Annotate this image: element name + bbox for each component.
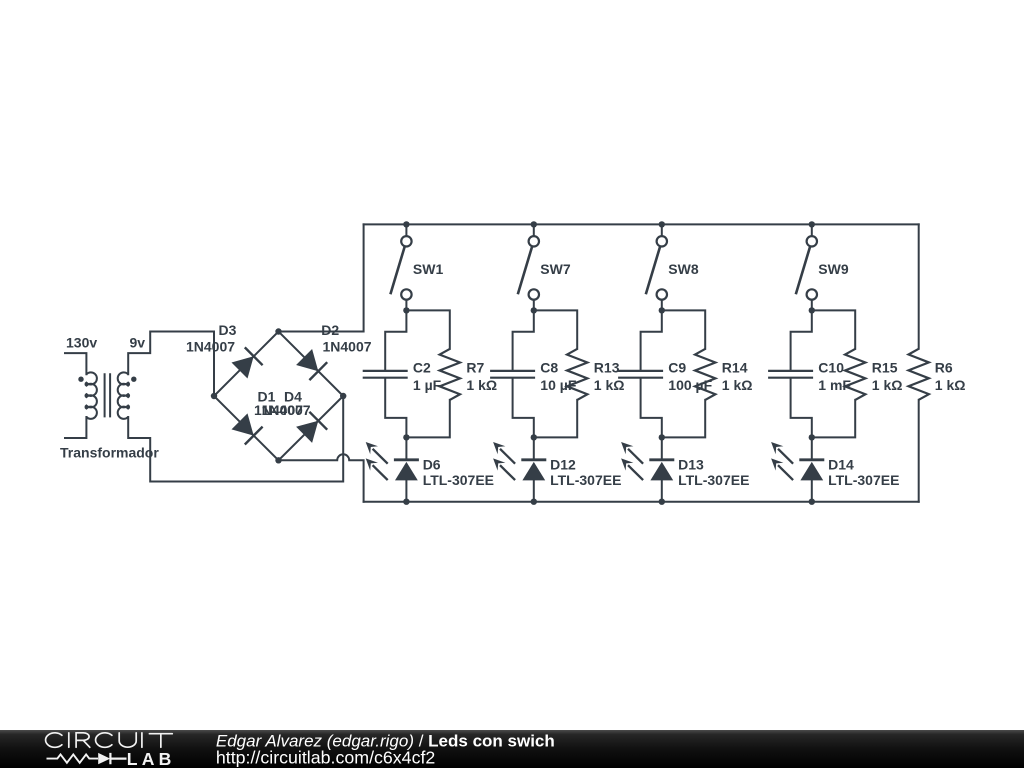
label R6 (935, 360, 953, 376)
capacitor C9 (618, 371, 663, 378)
label C9 (668, 360, 686, 376)
wire node to R7 top (406, 310, 449, 349)
label 130v (66, 334, 97, 350)
node top rail SW1 (403, 221, 409, 227)
wire top rail to SW7 (533, 224, 535, 236)
wire SW8 to node (661, 300, 663, 311)
wire right rail lower (918, 400, 920, 502)
svg-text:LTL-307EE: LTL-307EE (423, 472, 494, 488)
LED D12 (493, 442, 546, 480)
node bridge right node (340, 393, 346, 399)
svg-text:9v: 9v (130, 334, 146, 350)
label D14 (828, 456, 854, 472)
diode D1 (232, 413, 263, 444)
transformer T1 (78, 372, 136, 419)
wire node to C10 top (791, 310, 812, 370)
svg-text:R13: R13 (594, 360, 620, 376)
LED D13 (621, 442, 674, 480)
label C2 value (413, 377, 442, 393)
node bottom rail D6 (403, 499, 409, 505)
wire secondary bottom to bridge right node (128, 396, 343, 482)
switch SW1 (390, 236, 411, 300)
label D6 value LTL-307EE (423, 472, 494, 488)
wire bottom rail (364, 501, 919, 503)
node top rail SW8 (659, 221, 665, 227)
wire C8 bottom to node (513, 379, 534, 438)
wire SW7 to node (533, 300, 535, 311)
wire node to C9 top (641, 310, 662, 370)
svg-text:1N4007: 1N4007 (323, 339, 372, 355)
label D4 value 1N4007 (262, 402, 311, 418)
resistor R13 (567, 349, 587, 400)
node bridge top node (275, 328, 281, 334)
svg-text:1 kΩ: 1 kΩ (594, 377, 625, 393)
wire right rail upper (918, 224, 920, 348)
node bridge bottom node (275, 457, 281, 463)
svg-text:SW8: SW8 (668, 261, 699, 277)
label SW1 (413, 261, 444, 277)
node C2/R7 bottom (403, 434, 409, 440)
label C8 value (540, 377, 577, 393)
svg-text:130v: 130v (66, 334, 97, 350)
label R15 value 1 kOhm (872, 377, 903, 393)
label D13 (678, 456, 704, 472)
svg-text:C2: C2 (413, 360, 431, 376)
wire top rail to SW1 (405, 224, 407, 236)
label D3 (219, 322, 237, 338)
wire C9 bottom to node (641, 379, 662, 438)
wire top rail (364, 223, 919, 225)
label D13 value LTL-307EE (678, 472, 749, 488)
wire node to LED D14 (811, 437, 813, 459)
wire node to R14 top (662, 310, 705, 349)
resistor R7 (440, 349, 460, 400)
svg-text:SW9: SW9 (818, 261, 849, 277)
node SW7 output (531, 307, 537, 313)
svg-text:1 kΩ: 1 kΩ (466, 377, 497, 393)
resistor R15 (845, 349, 865, 400)
wire LED D12 to bottom rail (533, 480, 535, 501)
label R15 (872, 360, 898, 376)
footer title line (216, 731, 555, 750)
wire top rail to SW8 (661, 224, 663, 236)
label C2 (413, 360, 431, 376)
svg-text:SW7: SW7 (540, 261, 571, 277)
wire R13 bottom to node (534, 400, 577, 438)
wire R15 bottom to node (812, 400, 855, 438)
svg-text:LTL-307EE: LTL-307EE (678, 472, 749, 488)
svg-text:1 kΩ: 1 kΩ (935, 377, 966, 393)
LED D6 (366, 442, 419, 480)
wire R14 bottom to node (662, 400, 705, 438)
svg-text:LTL-307EE: LTL-307EE (828, 472, 899, 488)
svg-text:D2: D2 (321, 322, 339, 338)
resistor R14 (695, 349, 715, 400)
svg-text:D13: D13 (678, 456, 704, 472)
svg-text:LAB: LAB (127, 749, 176, 768)
diode D4 (296, 412, 327, 443)
wire bridge diamond (214, 332, 343, 461)
label D6 (423, 456, 441, 472)
footer bar (0, 730, 1024, 768)
switch SW9 (796, 236, 817, 300)
label SW7 (540, 261, 571, 277)
CircuitLab logo (46, 733, 173, 748)
node top rail SW9 (809, 221, 815, 227)
node C10/R15 bottom (809, 434, 815, 440)
node top rail SW7 (531, 221, 537, 227)
svg-text:LTL-307EE: LTL-307EE (550, 472, 621, 488)
node bottom rail D12 (531, 499, 537, 505)
label D1 (258, 389, 276, 405)
switch SW8 (646, 236, 667, 300)
label R13 value 1 kOhm (594, 377, 625, 393)
label R13 (594, 360, 620, 376)
label Transformador (60, 445, 159, 461)
label D14 value LTL-307EE (828, 472, 899, 488)
label C10 value (818, 377, 851, 393)
label 9v (130, 334, 146, 350)
node C8/R13 bottom (531, 434, 537, 440)
label D12 value LTL-307EE (550, 472, 621, 488)
node SW8 output (659, 307, 665, 313)
label SW8 (668, 261, 699, 277)
svg-text:SW1: SW1 (413, 261, 444, 277)
svg-text:R14: R14 (722, 360, 748, 376)
svg-text:D12: D12 (550, 456, 576, 472)
label C10 (818, 360, 844, 376)
svg-text:C10: C10 (818, 360, 844, 376)
label D2 (321, 322, 339, 338)
label C9 value (668, 377, 712, 393)
wire LED D14 to bottom rail (811, 480, 813, 501)
switch SW7 (518, 236, 539, 300)
resistor R6 (909, 349, 929, 400)
wire bridge bottom with hop to bottom corner (279, 454, 364, 501)
label D1 value 1N4007 (254, 402, 303, 418)
label D3 value 1N4007 (186, 339, 235, 355)
svg-text:http://circuitlab.com/c6x4cf2: http://circuitlab.com/c6x4cf2 (216, 748, 435, 768)
wire LED D13 to bottom rail (661, 480, 663, 501)
wire top rail to SW9 (811, 224, 813, 236)
node bottom rail D14 (809, 499, 815, 505)
svg-text:D14: D14 (828, 456, 854, 472)
svg-text:R15: R15 (872, 360, 898, 376)
label D4 (284, 389, 302, 405)
svg-text:R6: R6 (935, 360, 953, 376)
node C9/R14 bottom (659, 434, 665, 440)
node SW9 output (809, 307, 815, 313)
wire SW1 to node (405, 300, 407, 311)
capacitor C2 (363, 371, 408, 378)
wire R7 bottom to node (406, 400, 449, 438)
svg-text:R7: R7 (466, 360, 484, 376)
wire node to LED D6 (405, 437, 407, 459)
svg-text:C9: C9 (668, 360, 686, 376)
wire node to R15 top (812, 310, 855, 349)
diode D2 (296, 349, 327, 380)
svg-text:1 kΩ: 1 kΩ (722, 377, 753, 393)
logo LAB text (127, 749, 176, 768)
svg-text:1 kΩ: 1 kΩ (872, 377, 903, 393)
LED D14 (771, 442, 824, 480)
wire secondary top to bridge left node (128, 332, 214, 397)
wire LED D6 to bottom rail (405, 480, 407, 501)
label R14 value 1 kOhm (722, 377, 753, 393)
svg-text:C8: C8 (540, 360, 558, 376)
svg-text:D6: D6 (423, 456, 441, 472)
wire node to R13 top (534, 310, 577, 349)
wire node to LED D12 (533, 437, 535, 459)
wire node to C2 top (385, 310, 406, 370)
wire SW9 to node (811, 300, 813, 311)
footer url line (216, 748, 435, 768)
wire C2 bottom to node (385, 379, 406, 438)
label R6 value 1 kOhm (935, 377, 966, 393)
capacitor C10 (768, 371, 813, 378)
svg-text:Transformador: Transformador (60, 445, 159, 461)
svg-text:1N4007: 1N4007 (186, 339, 235, 355)
svg-text:1N4007: 1N4007 (262, 402, 311, 418)
node bridge left node (211, 393, 217, 399)
svg-text:D3: D3 (219, 322, 237, 338)
label R7 (466, 360, 484, 376)
label C8 (540, 360, 558, 376)
node bottom rail D13 (659, 499, 665, 505)
wire node to LED D13 (661, 437, 663, 459)
svg-text:1 µF: 1 µF (413, 377, 442, 393)
label SW9 (818, 261, 849, 277)
logo resistor-diode glyph (47, 753, 127, 764)
diode D3 (232, 347, 263, 378)
wire C10 bottom to node (791, 379, 812, 438)
label D12 (550, 456, 576, 472)
label D2 value 1N4007 (323, 339, 372, 355)
label R14 (722, 360, 748, 376)
wire primary top lead (65, 353, 86, 374)
wire node to C8 top (513, 310, 534, 370)
node SW1 output (403, 307, 409, 313)
wire primary bottom lead (65, 417, 86, 438)
wire bridge top to rail corner (279, 224, 364, 331)
label R7 value 1 kOhm (466, 377, 497, 393)
capacitor C8 (490, 371, 535, 378)
